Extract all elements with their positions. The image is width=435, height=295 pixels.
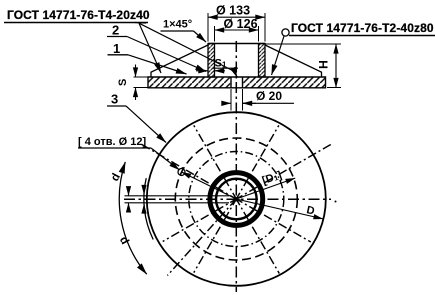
left cone surface bbox=[151, 45, 208, 77]
leader T4 to plate inside bore bbox=[139, 23, 235, 71]
svg-text:H: H bbox=[317, 60, 331, 69]
tube inner circle bbox=[216, 179, 257, 220]
weld label GOST 14771-76-T2-40z80 with flag circle bbox=[282, 29, 289, 36]
right cone surface bbox=[265, 45, 322, 77]
svg-text:S: S bbox=[117, 79, 129, 86]
dimension Ø126 bbox=[214, 26, 216, 42]
svg-text:Ø 20: Ø 20 bbox=[256, 89, 282, 103]
leader T4 to tube wall bbox=[135, 22, 146, 25]
center junction bbox=[235, 197, 239, 201]
dimension D outer bbox=[236, 199, 323, 219]
dimension S1 bbox=[196, 70, 208, 72]
svg-text:D: D bbox=[305, 204, 315, 217]
dimension arc d (outer) bbox=[119, 162, 146, 274]
svg-text:ГОСТ 14771-76-Т4-20z40: ГОСТ 14771-76-Т4-20z40 bbox=[7, 8, 150, 22]
spoke 240deg bbox=[194, 197, 238, 272]
spoke 60deg bbox=[235, 125, 278, 200]
spoke 300deg bbox=[235, 197, 279, 273]
dimension arc (inner) bbox=[144, 178, 153, 239]
spoke 228deg extended bbox=[167, 199, 236, 276]
thin gap lines bbox=[125, 195, 230, 197]
bolt hole 12mm bbox=[178, 169, 185, 176]
svg-text:Ø 126: Ø 126 bbox=[223, 17, 257, 31]
leader T2 to cone/plate weld bbox=[272, 36, 285, 75]
svg-text:1: 1 bbox=[113, 41, 120, 56]
intermediate dash-dot circle bbox=[189, 152, 284, 247]
svg-text:1×45°: 1×45° bbox=[163, 19, 192, 31]
dimension Ø133 bbox=[207, 13, 209, 42]
dimension [D1] bolt circle bbox=[236, 178, 295, 199]
vertical centerline bbox=[235, 41, 237, 292]
spoke 120deg bbox=[194, 125, 238, 200]
tube outer circle (thick) bbox=[210, 173, 263, 226]
dimension Ø20 bbox=[230, 89, 232, 111]
flange plate (pos.1) section bbox=[148, 77, 326, 88]
tube walls (pos.2) section bbox=[208, 44, 215, 78]
plan view outer circle (plate edge) bbox=[147, 112, 326, 286]
dimension S bbox=[134, 76, 148, 78]
dimension H bbox=[265, 43, 342, 45]
small gap arrows on arc bbox=[128, 188, 130, 196]
spoke 330deg bbox=[235, 198, 311, 242]
spoke 30deg bbox=[235, 144, 332, 200]
horizontal centerline bbox=[124, 198, 331, 200]
svg-text:[ 4 отв. Ø 12]: [ 4 отв. Ø 12] bbox=[78, 136, 146, 148]
svg-text:[D₁]: [D₁] bbox=[261, 169, 284, 187]
spoke 210deg bbox=[163, 198, 238, 242]
dimension [D1] opposite arrow bbox=[182, 172, 237, 199]
svg-text:ГОСТ 14771-76-Т2-40z80: ГОСТ 14771-76-Т2-40z80 bbox=[291, 21, 434, 35]
tube top rim edge bbox=[208, 43, 265, 45]
svg-text:3: 3 bbox=[111, 92, 118, 107]
svg-text:2: 2 bbox=[112, 23, 119, 38]
spoke 150deg bbox=[141, 144, 238, 200]
bolt circle (dashed) bbox=[175, 138, 297, 260]
svg-text:Ø 133: Ø 133 bbox=[216, 4, 250, 18]
